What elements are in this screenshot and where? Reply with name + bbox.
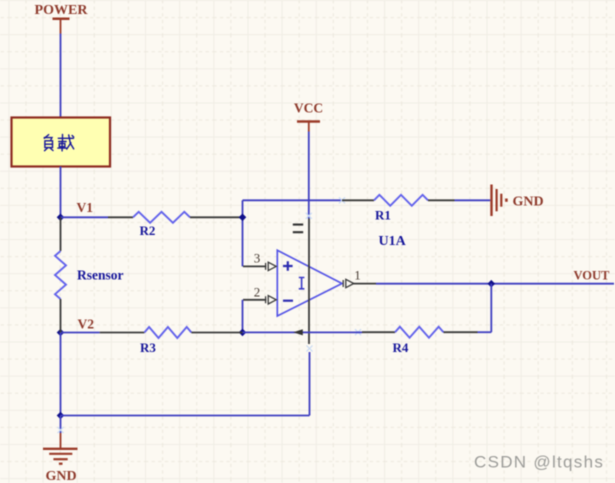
resistor R1 bbox=[342, 195, 455, 223]
svg-text:R2: R2 bbox=[140, 223, 156, 238]
wire feedback right vertical bbox=[490, 284, 492, 333]
pin 8 marker dashes bbox=[293, 225, 303, 233]
wire bottom rail bbox=[61, 415, 310, 417]
wire vertical to pin3 bbox=[242, 200, 244, 266]
pin 2 bbox=[243, 284, 276, 304]
wire arrow on feedback bbox=[293, 329, 303, 335]
svg-text:1: 1 bbox=[354, 268, 361, 283]
load block 负载 bbox=[12, 118, 111, 167]
power port GND bottom bbox=[43, 433, 78, 483]
resistor R4 bbox=[362, 327, 478, 355]
svg-text:U1A: U1A bbox=[379, 234, 407, 249]
wire bottom rail up to pin4 bbox=[309, 352, 311, 416]
resistor Rsensor bbox=[55, 217, 124, 332]
junction V2 bbox=[57, 329, 65, 337]
junction output bbox=[488, 280, 496, 288]
resistor R2 bbox=[108, 212, 243, 238]
resistor R3 bbox=[61, 327, 243, 355]
power port POWER bbox=[35, 3, 89, 34]
junction feedback bbox=[239, 329, 247, 337]
op-amp U1A bbox=[277, 250, 342, 316]
svg-text:POWER: POWER bbox=[35, 3, 89, 18]
wire V1 to R2 bbox=[61, 216, 109, 218]
svg-text:R3: R3 bbox=[140, 340, 156, 355]
wire feedback right horizontal bbox=[478, 331, 492, 333]
svg-text:Rsensor: Rsensor bbox=[77, 268, 124, 283]
pin 3 bbox=[243, 251, 276, 271]
svg-text:CSDN @ltqshs: CSDN @ltqshs bbox=[474, 453, 604, 472]
no-ERC marker R4 left bbox=[355, 329, 361, 335]
pin 8 vertical bbox=[308, 219, 310, 345]
junction R2 right bbox=[239, 214, 247, 222]
junction V1 bbox=[57, 214, 65, 222]
wire POWER rail top bbox=[60, 34, 62, 118]
wire top horizontal bbox=[243, 199, 343, 201]
no-ERC marker GND bbox=[58, 427, 64, 433]
wire box to V1 bbox=[60, 167, 62, 218]
svg-text:GND: GND bbox=[513, 195, 544, 210]
wire V2 to bottom rail bbox=[60, 333, 62, 416]
svg-text:R1: R1 bbox=[375, 208, 391, 223]
junction bottom rail bbox=[57, 412, 65, 420]
svg-text:3: 3 bbox=[254, 251, 261, 266]
wire output VOUT bbox=[376, 283, 614, 285]
no-ERC marker VCC pin8 bbox=[306, 213, 312, 219]
svg-text:V1: V1 bbox=[77, 200, 94, 215]
power port VCC bbox=[294, 101, 323, 132]
svg-text:2: 2 bbox=[254, 284, 261, 299]
wire pin2 down to feedback bbox=[242, 300, 244, 333]
wire feedback middle bbox=[243, 331, 363, 333]
wire VCC down bbox=[308, 132, 310, 219]
svg-text:VCC: VCC bbox=[294, 101, 323, 116]
no-ERC marker pin4 bbox=[307, 346, 313, 352]
svg-text:VOUT: VOUT bbox=[574, 269, 611, 283]
wire R1 to GND bbox=[455, 199, 491, 201]
svg-text:V2: V2 bbox=[78, 317, 95, 332]
no-ERC marker R1 left bbox=[339, 197, 345, 203]
power port GND right bbox=[492, 185, 544, 217]
svg-text:R4: R4 bbox=[393, 340, 409, 355]
pin 1 output bbox=[343, 268, 376, 288]
svg-text:GND: GND bbox=[46, 469, 77, 483]
wire to GND bottom bbox=[60, 416, 62, 434]
